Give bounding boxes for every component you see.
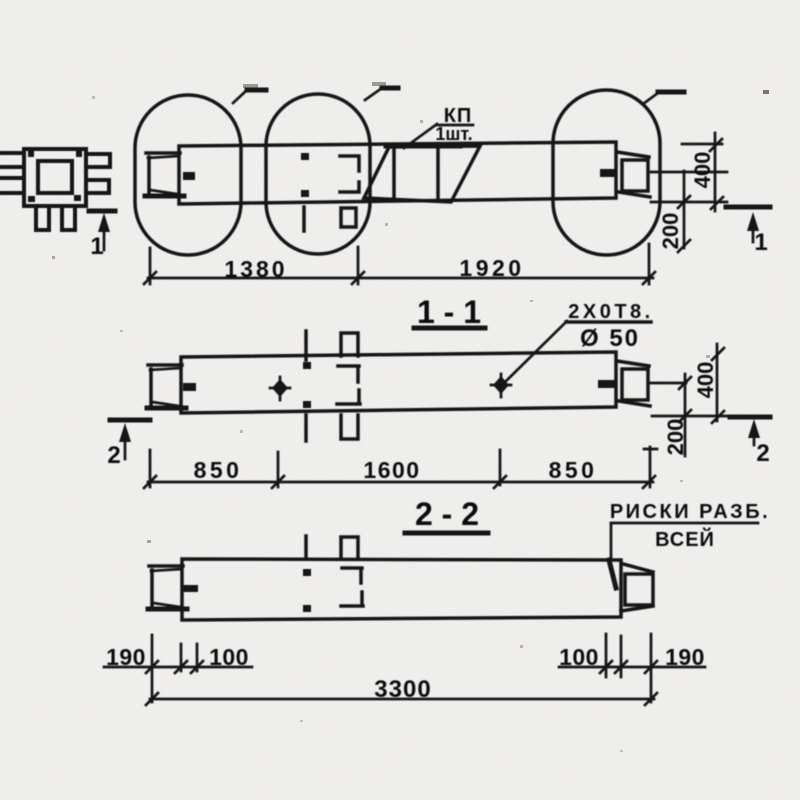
svg-text:3300: 3300: [374, 676, 431, 703]
svg-text:2Х0Т8.: 2Х0Т8.: [568, 301, 653, 323]
svg-text:100: 100: [209, 644, 249, 670]
svg-text:1380: 1380: [224, 256, 287, 282]
svg-text:РИСКИ РАЗБ.: РИСКИ РАЗБ.: [610, 501, 770, 523]
svg-text:2: 2: [107, 442, 120, 469]
svg-text:850: 850: [549, 457, 598, 483]
svg-text:190: 190: [106, 644, 146, 670]
svg-text:200: 200: [663, 419, 688, 456]
svg-text:400: 400: [693, 362, 718, 399]
svg-text:Ø 50: Ø 50: [580, 325, 640, 352]
svg-text:1: 1: [90, 233, 103, 260]
svg-text:1 - 1: 1 - 1: [417, 294, 481, 330]
svg-text:1шт.: 1шт.: [435, 124, 472, 144]
svg-text:1920: 1920: [459, 255, 524, 281]
svg-text:1600: 1600: [363, 457, 420, 483]
svg-text:850: 850: [194, 457, 243, 483]
svg-text:200: 200: [658, 213, 683, 250]
svg-text:190: 190: [665, 644, 705, 670]
svg-text:1: 1: [754, 229, 767, 256]
svg-text:ВСЕЙ: ВСЕЙ: [655, 527, 715, 551]
svg-text:100: 100: [559, 644, 599, 670]
svg-text:2: 2: [756, 440, 769, 467]
svg-text:400: 400: [690, 152, 715, 189]
svg-text:2 - 2: 2 - 2: [415, 496, 479, 532]
